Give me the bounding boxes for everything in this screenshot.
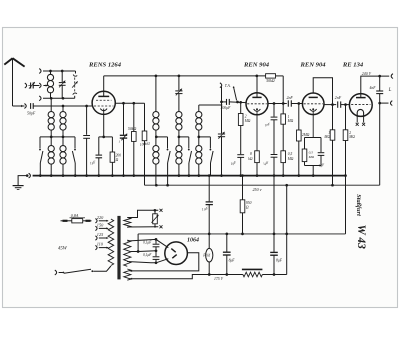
heater winding S1 [124,218,131,228]
grid capacitor [86,106,88,135]
resistor 0.5 MOhm [282,124,284,151]
svg-text:2nF: 2nF [335,96,342,100]
svg-text:175 V: 175 V [214,277,224,281]
svg-text:45W: 45W [58,247,68,252]
tank coil A upper [155,76,157,112]
resistor 1 MOhm [282,76,284,114]
svg-text:MΩ: MΩ [287,157,294,161]
svg-text:8μF: 8μF [276,259,283,263]
svg-text:T.A.: T.A. [225,84,231,88]
field coil Feld [208,234,210,248]
transformer primary winding [108,219,114,266]
svg-text:110: 110 [97,242,104,247]
plate lead 240V [361,76,389,98]
capacitor 1uF rail [208,176,210,202]
tank coil B lower [176,146,182,152]
capacitor 0.1uF upper [155,239,157,243]
svg-text:MΩ: MΩ [323,135,330,139]
antenna coil L1 [50,71,52,75]
svg-text:50kΩ: 50kΩ [266,79,275,83]
svg-text:300μF: 300μF [221,106,232,110]
svg-text:MΩ: MΩ [244,119,251,123]
node row band filter [40,136,75,138]
capacitor 0.1uF lower [155,251,157,256]
resistor 100 kOhm [144,103,146,131]
grid leak 2 MOhm NF [298,104,300,131]
cathode output wire [130,253,199,271]
svg-text:RE 134: RE 134 [342,62,364,69]
phono input TA [221,87,223,102]
output terminal bottom [380,102,389,104]
wire antenna to 50pF [13,105,25,107]
svg-text:W 43: W 43 [355,225,367,250]
svg-text:kΩ: kΩ [248,157,253,161]
svg-text:200: 200 [116,154,122,158]
svg-text:150: 150 [97,222,104,227]
resistor 50 kOhm screen [133,103,135,131]
resistor 950 Ohm [242,176,244,200]
ground symbol [18,176,27,186]
screen row [115,102,144,104]
svg-text:2: 2 [245,115,247,119]
antenna trimmer capacitor [25,83,27,88]
svg-text:2: 2 [349,131,351,135]
hum potentiometer [153,214,158,224]
svg-text:8: 8 [250,152,252,156]
resistor 50 kOhm plate [266,74,276,78]
coupling adjust dashed link [75,71,77,74]
mains switch [55,270,57,275]
capacitor 50pF [30,103,32,109]
anode wire top [127,239,168,247]
resistor 2 MOhm bias [345,105,347,130]
svg-text:Staßfurt: Staßfurt [355,194,362,216]
svg-text:50pF: 50pF [27,112,36,116]
cathode lead [103,114,105,136]
svg-text:240 V: 240 V [362,72,372,76]
svg-text:8μF: 8μF [229,259,236,263]
variable capacitor tuning [61,71,63,82]
svg-text:250 v: 250 v [253,187,262,192]
screen bypass trimmer capacitor [123,103,125,135]
switch B [188,137,190,149]
plate lead up [103,76,105,97]
switch A [167,137,169,149]
rectifier tube 1064 [165,242,188,265]
cathode resistor 200 Ohm [111,137,113,152]
heater winding S3 [124,269,131,280]
capacitor 8uF first [226,234,228,252]
cathode capacitor 1uF [99,136,113,138]
svg-text:L: L [388,88,392,93]
wire to supply rail [379,103,381,185]
capacitor 2nF to RE134 [337,101,339,107]
svg-text:950: 950 [246,201,252,205]
wire to rail right [286,185,288,274]
capacitor 2nF coupling [287,100,289,106]
link C to D [199,104,222,106]
svg-text:MΩ: MΩ [308,155,315,159]
svg-text:1: 1 [288,115,290,119]
tube REN 904 detector [246,93,268,115]
svg-text:REN 904: REN 904 [299,62,326,69]
plate lead over [313,78,332,105]
grid leak 2 MOhm [239,101,242,104]
output terminal top [391,74,393,79]
center tap to rail [131,250,156,253]
trimmer capacitor B [178,76,180,90]
svg-text:125: 125 [97,232,104,237]
tank coil A lower [153,146,159,152]
svg-text:220: 220 [97,215,104,220]
svg-text:4nF: 4nF [370,86,377,90]
plate supply rail [104,75,266,77]
supply rail 250V [145,184,380,186]
anode wire bottom [127,262,156,263]
speaker coil [242,268,263,270]
svg-text:2MΩ: 2MΩ [302,133,310,137]
cathode network [312,111,314,138]
antenna [12,58,14,106]
fuse 0.8A [61,220,72,222]
switch C [209,137,211,149]
bias feed wire [345,141,347,234]
tank coil C upper [198,105,200,112]
filament legs [356,116,358,122]
tube RE 134 output [349,94,372,117]
svg-text:Ω: Ω [246,206,249,210]
plate bypass capacitors [273,104,275,117]
tube REN 904 NF [302,93,324,115]
svg-text:1: 1 [328,131,330,135]
svg-text:2nF: 2nF [287,96,294,100]
antenna tank bottom wire [39,96,41,101]
transformer core [117,216,120,280]
plate lead [256,76,258,98]
tank coil B upper [178,94,180,112]
svg-text:Ω: Ω [116,158,119,162]
HV winding S2 [124,240,131,266]
svg-text:MΩ: MΩ [287,119,294,123]
svg-text:RENS 1264: RENS 1264 [88,62,122,69]
capacitor 4nF [379,76,381,90]
svg-text:REN 904: REN 904 [243,62,270,69]
svg-text:50kΩ: 50kΩ [128,127,137,131]
plate wire to coupling cap [268,103,287,105]
wave switch right [74,137,76,149]
tank coil C lower [196,146,202,152]
return wire 175V [130,275,243,279]
tube RENS 1264 [92,91,115,114]
RF transformer lower coils [50,137,52,146]
svg-text:MΩ: MΩ [348,135,355,139]
wave switch left [39,137,41,149]
voltage selector taps [95,219,97,223]
trimmer capacitor D [221,102,223,133]
wire grid line [33,105,92,107]
wire bus to rail [273,176,275,234]
grid wire RE134 [324,104,336,106]
RF transformer upper coils [50,98,52,112]
svg-text:Feld: Feld [202,254,210,258]
dc rail 234 [138,233,345,235]
antenna tank top wire [39,69,41,74]
capacitor 1uF [237,154,244,156]
capacitor 300pF [220,101,223,104]
svg-text:1064: 1064 [187,238,199,244]
chassis bus [33,175,346,177]
resistor 1 MOhm grid [332,105,334,130]
capacitor 8uF second [273,234,275,252]
cathode resistor 8 kOhm [256,111,258,151]
